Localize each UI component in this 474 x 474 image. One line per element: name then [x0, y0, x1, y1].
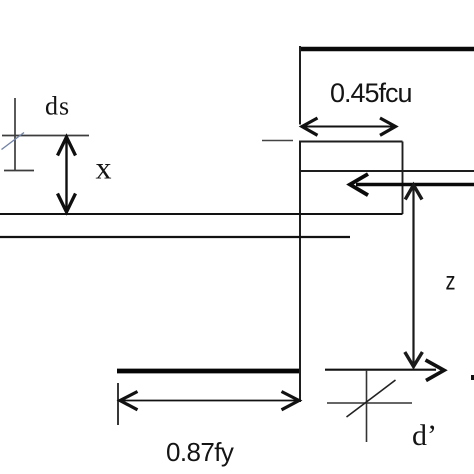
lower reference line — [0, 236, 350, 238]
compression force arrow shaft — [356, 183, 474, 186]
d' marker vertical line — [366, 370, 368, 442]
neutral axis line — [299, 170, 474, 172]
z top arrowhead — [405, 185, 422, 200]
z bottom arrowhead — [405, 352, 423, 367]
svg-text:d’: d’ — [412, 419, 437, 452]
svg-text:ds: ds — [45, 92, 70, 121]
0.87fy dimension shaft — [122, 400, 297, 402]
svg-text:0.45fcu: 0.45fcu — [330, 78, 412, 108]
compression force arrowhead — [350, 174, 368, 195]
ledge dash left of stress block — [262, 140, 293, 142]
dimension arrow 0.45fcu shaft — [304, 126, 393, 128]
cut-off letter fragment at right edge — [471, 375, 474, 380]
section vertical line upper part (flange depth) — [299, 46, 301, 125]
stress block right edge — [402, 142, 404, 215]
stress block top edge — [299, 141, 403, 143]
d' marker slash — [347, 380, 396, 417]
top compression face thick line — [299, 47, 474, 51]
x bottom arrowhead — [58, 194, 76, 213]
section vertical line lower part (web / stress block left edge) — [299, 141, 301, 402]
depth arrow x shaft — [65, 140, 67, 210]
tension arrowhead — [426, 360, 445, 381]
d' marker horizontal line — [327, 402, 412, 404]
ds dimension horizontal line — [2, 135, 89, 137]
svg-text:0.87fy: 0.87fy — [166, 437, 234, 467]
0.87fy dimension left tick — [117, 383, 119, 425]
steel force thick line — [117, 369, 299, 374]
effective depth line — [0, 213, 403, 215]
ds dimension vertical line — [14, 98, 16, 171]
0.87fy left arrowhead — [120, 392, 138, 410]
lever arm arrow z shaft — [412, 188, 414, 363]
ds dimension bottom tick — [4, 170, 34, 172]
ds blue tick mark — [2, 133, 25, 150]
x top arrowhead — [58, 137, 76, 156]
svg-text:x: x — [96, 150, 112, 186]
dimension arrow 0.45fcu left arrowhead — [302, 118, 318, 135]
svg-text:z: z — [446, 268, 456, 296]
dimension arrow 0.45fcu right arrowhead — [380, 118, 396, 135]
0.87fy right arrowhead — [282, 392, 300, 410]
tension arrow shaft — [325, 369, 436, 371]
